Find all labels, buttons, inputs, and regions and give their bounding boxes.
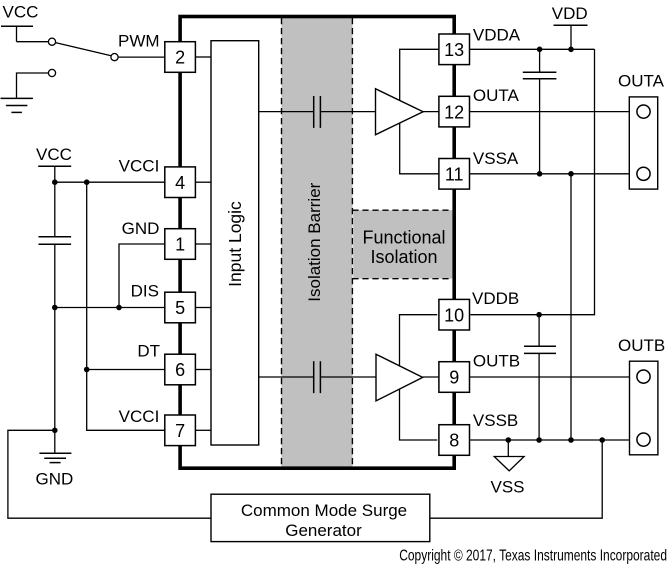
svg-text:7: 7 [175,421,185,441]
wire pin7 to input logic [196,429,212,431]
input logic block [211,41,259,445]
capacitor C2 (VDDA bypass) [523,72,557,79]
functional isolation region [352,210,452,279]
svg-text:OUTA: OUTA [618,71,665,90]
svg-text:DT: DT [137,342,160,361]
svg-text:VCCI: VCCI [119,157,160,176]
wire pin1 to input logic [196,243,212,245]
wire pin6 to input logic [196,369,212,371]
junction VSSB/VSSA link [568,437,574,443]
wire VCC to pin4 (VCCI net) [55,181,165,183]
svg-text:6: 6 [175,360,185,380]
svg-text:Common Mode Surge: Common Mode Surge [241,501,407,520]
pin 7 [165,415,196,446]
ground symbol (left) [39,453,71,462]
wire VSSA to VSSB link [570,174,572,440]
VDD supply [552,4,588,50]
wire input logic to channel A buffer [259,111,314,113]
svg-text:1: 1 [175,235,185,255]
junction VDDA/VDD stub [568,47,574,53]
ground symbol (switch) [1,98,33,112]
wire input logic to channel B buffer [259,376,314,378]
wire switch to pin2 (PWM net) [118,56,165,58]
svg-text:Functional: Functional [362,227,445,247]
pin 11 [439,159,470,190]
isolation barrier right dashed edge [351,18,353,467]
pin 1 [165,229,196,260]
junction VDDB/capB [536,312,542,318]
buffer A (output driver) [376,89,424,135]
pin 13 [439,34,470,65]
junction VDDA/capA [537,47,543,53]
pin 10 [439,299,470,330]
wire VCC branch down to DT row [86,182,88,369]
svg-text:Generator: Generator [285,521,362,540]
wire OUTB (pin9 to connector) [470,376,631,378]
isolation barrier gray band [282,17,353,469]
junction ground rail / surge loop [52,428,58,434]
capacitor C1 (VCCI bypass) [39,237,72,245]
IC U1 outline [180,17,454,469]
svg-text:8: 8 [449,431,459,451]
junction VSSB/surge loop [599,437,605,443]
wire capB top stub [538,315,540,347]
wire ground rail to surge generator loop [8,430,211,518]
svg-text:VSSA: VSSA [473,149,519,168]
svg-text:VDDA: VDDA [473,25,521,44]
junction VCCI branch [84,179,90,185]
wire pin11 to buffer A return [400,112,439,174]
svg-text:VDD: VDD [552,4,588,23]
wire capA bottom to VSSA rail [539,79,541,174]
svg-text:PWM: PWM [118,31,160,50]
svg-text:VDDB: VDDB [472,289,519,308]
wire VCC to switch pole [17,41,49,43]
switch lower throw contact [48,69,55,76]
wire VSSB rail (pin8 to connector) [470,439,631,441]
svg-text:VSSB: VSSB [473,411,518,430]
wire capB bottom to VSSB rail [538,353,540,440]
pin 6 [165,354,196,385]
junction VSSB/capB [536,437,542,443]
wire pin10 to buffer B supply [400,315,438,377]
svg-text:Copyright © 2017, Texas Instru: Copyright © 2017, Texas Instruments Inco… [399,546,667,564]
pin 9 [439,362,470,393]
junction VSSA/capA [537,171,543,177]
isolation capacitor channel B [313,361,315,393]
wire pin4 to input logic [196,181,212,183]
wire surge loop right side [430,440,602,518]
svg-text:Isolation: Isolation [370,247,437,267]
wire VDDA to VDDB link [470,49,594,314]
svg-text:OUTA: OUTA [473,86,520,105]
svg-text:4: 4 [175,173,185,193]
svg-text:13: 13 [444,40,464,60]
VSS ground triangle [494,457,524,471]
wire pin2 to input logic [196,56,212,58]
pin 2 [165,42,196,73]
junction VSSA/VSSB link [568,171,574,177]
wire buffer A to pin12 [423,111,439,113]
svg-text:Input Logic: Input Logic [225,201,245,287]
svg-text:11: 11 [445,165,464,185]
svg-text:12: 12 [444,102,464,122]
wire buffer B to pin9 [423,376,439,378]
svg-text:GND: GND [36,470,74,489]
switch SW1 blade [56,43,112,56]
pin 8 [439,425,470,456]
svg-text:DIS: DIS [131,281,159,300]
svg-text:VCC: VCC [36,145,72,164]
wire pin13 to buffer A supply [400,49,439,112]
svg-text:9: 9 [449,368,459,388]
switch SW1 pole contact [48,38,55,45]
wire pin5 to input logic [196,307,212,309]
junction VSSB/VSS symbol [506,437,512,443]
junction DIS/GND pin wire [116,305,122,311]
wire DIS row to pin5 [55,307,165,309]
buffer B (output driver) [376,354,423,401]
connector J2 OUTB [618,336,665,455]
wire VCC stub to bypass cap [54,182,56,237]
svg-text:5: 5 [175,298,185,318]
wire pin1 GND down to DIS row [119,244,165,308]
wire pin8 to buffer B return [400,377,438,440]
pin 4 [165,167,196,198]
isolation capacitor channel A [313,96,315,128]
switch SW1 throw contact [111,54,118,61]
svg-text:GND: GND [122,219,160,238]
wire VDDA rail (pin13 to corner) [470,48,595,50]
wire OUTA (pin12 to connector) [470,111,629,113]
svg-text:VSS: VSS [491,478,525,497]
VCC supply (left) [36,145,72,182]
svg-text:VCC: VCC [3,3,39,22]
connector J1 OUTA [618,71,665,189]
wire lower throw to ground [17,73,49,98]
svg-text:VCCI: VCCI [119,407,160,426]
capacitor C3 (VDDB bypass) [524,346,556,353]
junction DIS/ground rail [52,305,58,311]
pin 5 [165,292,196,323]
svg-text:OUTB: OUTB [473,352,520,371]
wire capA top stub [539,49,541,72]
VSS symbol stub [507,440,509,457]
svg-text:10: 10 [444,305,464,325]
VCC supply (top left) [1,3,38,42]
wire cap to ground rail [54,244,56,453]
wire VCC branch down to pin7 row [87,370,165,431]
pin 12 [439,96,470,127]
wire DT row to pin6 [87,369,165,371]
junction DT row [84,367,90,373]
svg-text:OUTB: OUTB [618,336,665,355]
svg-text:Isolation Barrier: Isolation Barrier [305,182,324,301]
wire VSSA rail (pin11 to connector) [470,173,629,175]
svg-text:2: 2 [175,48,185,68]
isolation barrier left dashed edge [281,18,283,467]
junction VCC/VCCI [52,179,58,185]
common mode surge generator [211,494,430,541]
